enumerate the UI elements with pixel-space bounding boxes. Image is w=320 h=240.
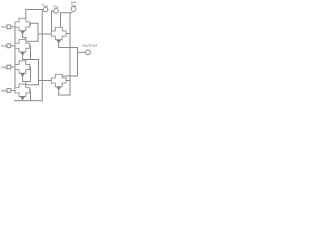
svg-text:InB: InB (1, 65, 7, 69)
svg-text:InA: InA (1, 44, 7, 48)
svg-text:Vdd: Vdd (42, 2, 48, 8)
svg-text:InA: InA (1, 25, 7, 29)
svg-text:Vdd: Vdd (71, 3, 77, 8)
svg-text:InB: InB (1, 89, 7, 93)
svg-text:OUTPUT: OUTPUT (82, 44, 98, 48)
svg-text:Vdd: Vdd (53, 4, 59, 9)
